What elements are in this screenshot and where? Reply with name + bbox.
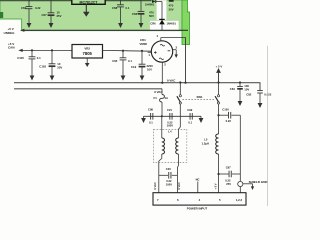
svg-text:L4: L4 <box>168 129 172 133</box>
capacitor C21 <box>167 108 173 128</box>
svg-text:1: 1 <box>148 53 150 57</box>
svg-text:C98: C98 <box>148 108 153 112</box>
svg-text:0.1: 0.1 <box>126 6 130 10</box>
wire from green column down to wire A <box>184 38 186 84</box>
capacitor C97 <box>217 165 240 186</box>
L4 left winding <box>159 116 165 192</box>
shield gnd wire and ground <box>243 180 269 190</box>
svg-text:C105: C105 <box>17 56 24 60</box>
wire A horizontal (9 VAC / +5V rail) <box>14 82 260 84</box>
voltage regulator VR1 MC7812CT <box>72 0 105 4</box>
bridge pin 3 stub to ground <box>172 45 178 58</box>
svg-text:9 VAC: 9 VAC <box>153 182 157 190</box>
svg-text:CR6: CR6 <box>150 22 156 26</box>
dark green mark at left edge <box>0 12 3 18</box>
svg-text:UNREG: UNREG <box>4 31 16 35</box>
svg-text:25V: 25V <box>57 66 62 70</box>
svg-text:C21: C21 <box>167 108 172 112</box>
green highlight block (main board area) <box>0 0 182 31</box>
wire 12V feed vertical <box>161 2 163 20</box>
capacitor C105 <box>17 49 41 80</box>
bridge pin 1 stub <box>148 52 152 57</box>
svg-text:50V: 50V <box>149 14 154 18</box>
svg-text:C67: C67 <box>42 13 48 17</box>
capacitor C67 <box>42 0 62 28</box>
svg-text:9 VAC: 9 VAC <box>177 182 181 190</box>
capacitor C99 <box>187 108 192 124</box>
svg-text:CAN: CAN <box>8 46 15 50</box>
svg-text:1N4001: 1N4001 <box>167 22 177 26</box>
choke L4 dashed box <box>154 129 187 162</box>
svg-text:50V: 50V <box>169 7 174 11</box>
svg-text:C99: C99 <box>187 108 192 112</box>
bridge pin 4 stub and wire to board edge <box>156 34 185 41</box>
svg-text:10V: 10V <box>147 68 152 72</box>
wire right vertical between C100 and C97 <box>239 115 241 174</box>
L4 right winding <box>176 116 181 192</box>
fuse F1 1A <box>154 89 169 117</box>
svg-text:+ 5 V: + 5 V <box>214 183 218 189</box>
switch SW1 gang dashed line and label <box>183 95 216 99</box>
svg-text:0.022: 0.022 <box>264 92 271 96</box>
svg-text:10V: 10V <box>244 87 249 91</box>
svg-text:SW1: SW1 <box>197 95 204 99</box>
capacitor C82 <box>246 83 272 108</box>
svg-text:100V: 100V <box>166 182 172 186</box>
node +5V UNREG with off-page arrow <box>4 27 25 35</box>
wire B horizontal 9 VAC <box>14 89 163 94</box>
junction fuse line caps row <box>161 115 163 117</box>
wire +5V UNREG rail <box>24 29 188 31</box>
NC pin 4 stub <box>196 177 200 192</box>
svg-text:POWER INPUT: POWER INPUT <box>187 206 208 210</box>
svg-text:0.1: 0.1 <box>188 120 192 124</box>
svg-text:1N4001: 1N4001 <box>145 2 155 6</box>
svg-text:25V: 25V <box>57 14 62 18</box>
ground arrow under VR1 <box>83 4 90 16</box>
capacitor C19 <box>131 50 153 81</box>
capacitor C95 <box>112 50 132 81</box>
rotated +5V label pin 5 <box>214 183 218 189</box>
svg-text:100V: 100V <box>167 124 173 128</box>
wire top rail (cut by crop) <box>0 0 152 2</box>
rotated 9 VAC label pin 6 <box>177 182 181 190</box>
svg-text:4: 4 <box>156 34 158 38</box>
svg-text:C82: C82 <box>246 92 252 96</box>
svg-text:7805: 7805 <box>83 51 93 56</box>
svg-text:MC7812CT: MC7812CT <box>80 0 99 4</box>
rotated 9 VAC label pin 7 <box>153 182 157 190</box>
capacitor C69 <box>21 0 41 28</box>
svg-text:3: 3 <box>176 45 178 49</box>
svg-text:0.22: 0.22 <box>226 119 232 123</box>
svg-text:C100: C100 <box>222 108 229 112</box>
node +5V CAN with off-page arrow <box>8 42 23 52</box>
switch SW1 left pole <box>177 95 182 117</box>
capacitor C68 <box>112 0 130 28</box>
connector J power input <box>153 193 246 211</box>
junction bridge pin2 on wire A <box>161 82 163 84</box>
svg-text:0.1: 0.1 <box>149 120 153 124</box>
svg-text:1A: 1A <box>165 96 169 100</box>
capacitor C103 <box>39 49 62 80</box>
svg-text:VM08: VM08 <box>140 42 148 46</box>
voltage regulator VR2 7805 <box>72 45 103 59</box>
svg-text:SHIELD GND: SHIELD GND <box>249 180 269 184</box>
diode CR6 1N4001 <box>150 19 176 30</box>
svg-text:C95: C95 <box>112 59 118 63</box>
capacitor C20 <box>159 167 178 186</box>
capacitor C66 <box>132 0 154 28</box>
svg-text:L5: L5 <box>204 138 208 142</box>
svg-text:C68: C68 <box>112 6 118 10</box>
ground under VR2 <box>85 58 90 67</box>
wire +5V CAN rail right of VR2 <box>103 49 152 52</box>
svg-text:C69: C69 <box>21 6 27 10</box>
svg-text:C19: C19 <box>131 65 137 69</box>
capacitor C98 <box>148 108 153 125</box>
bridge pin 2 stub and vertical wire <box>162 62 166 83</box>
wire A junction to SW1 right pole <box>218 83 220 95</box>
svg-text:9 VAC: 9 VAC <box>167 78 176 82</box>
svg-text:C66: C66 <box>132 12 138 16</box>
diode at top of 12V feed (cut off) <box>145 0 162 6</box>
svg-text:0.22: 0.22 <box>166 179 172 183</box>
svg-text:0.1: 0.1 <box>128 59 132 63</box>
bridge rectifier CR4 VM08 <box>140 38 173 62</box>
svg-text:0.1: 0.1 <box>37 56 41 60</box>
green highlight column (board edge bus) <box>182 0 190 45</box>
svg-text:NC: NC <box>196 177 200 181</box>
svg-text:0.22: 0.22 <box>225 178 231 182</box>
junction wire A to SW1 left pole <box>179 81 181 94</box>
svg-text:C97: C97 <box>226 165 231 169</box>
svg-text:1.2μH: 1.2μH <box>202 141 209 145</box>
svg-text:C103: C103 <box>39 65 46 69</box>
svg-text:+ 5 V: + 5 V <box>216 64 223 68</box>
shield terminal circle <box>238 174 243 193</box>
caps row right ground <box>199 116 204 123</box>
svg-text:F1: F1 <box>154 96 158 100</box>
svg-text:2: 2 <box>164 62 166 66</box>
svg-text:C81: C81 <box>230 87 236 91</box>
label 9 VAC on wire A <box>167 78 176 82</box>
svg-text:0.22: 0.22 <box>35 6 41 10</box>
svg-text:25V: 25V <box>226 182 231 186</box>
inductor L5 <box>202 115 219 193</box>
node +5V up arrow on wire A <box>216 64 223 83</box>
capacitor C65 with value <box>169 1 174 11</box>
svg-text:VR2: VR2 <box>84 47 90 51</box>
svg-text:C20: C20 <box>166 167 171 171</box>
switch SW1 right pole <box>215 95 219 115</box>
wire +5V CAN rail left of VR2 <box>22 49 72 51</box>
caps row wire with left ground <box>141 116 201 123</box>
capacitor C100 <box>217 108 240 123</box>
capacitor C81 <box>230 81 250 106</box>
svg-text:1,2,3: 1,2,3 <box>236 198 243 202</box>
right border line <box>267 46 269 206</box>
